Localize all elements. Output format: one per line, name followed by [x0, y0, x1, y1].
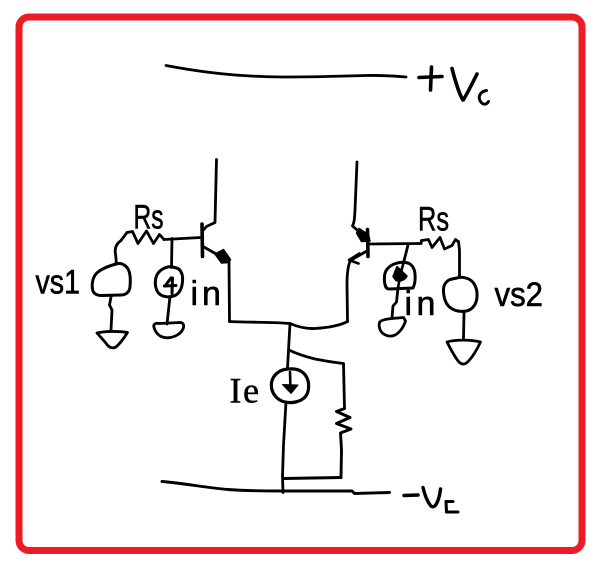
current source Ie circle: [271, 369, 308, 403]
resistor Rs (left): [121, 231, 164, 244]
wire -Ve bottom rail: [162, 482, 390, 494]
source vs2: [443, 277, 477, 311]
svg-text:Ie: Ie: [230, 371, 261, 411]
wire branch to resistor: [289, 350, 343, 364]
wire vs1 to ground: [110, 297, 113, 330]
arrow inside Ie: [289, 372, 292, 390]
resistor Rs (right): [421, 238, 458, 250]
svg-text:vs2: vs2: [495, 276, 544, 314]
wire right emitter down: [347, 262, 350, 322]
wire right collector: [353, 162, 365, 236]
arrow inside right in source: [398, 261, 404, 288]
arrow inside left in source: [165, 278, 171, 286]
svg-text:in: in: [191, 275, 225, 313]
node -Ve label (hand-drawn): [404, 488, 458, 513]
wire left collector: [203, 160, 217, 231]
node +Vc label (hand-drawn): [419, 67, 489, 104]
svg-text:Rs: Rs: [134, 199, 164, 237]
transistor Q2 collector arrow: [357, 229, 371, 242]
current source in (left) circle: [155, 267, 182, 297]
wire right base: [369, 242, 421, 245]
wire Rs left end down to vs1: [115, 241, 121, 265]
wire tail from bus down: [288, 324, 291, 369]
wire left base: [164, 238, 201, 240]
ground (left in): [154, 323, 184, 338]
wire left emitter down: [228, 262, 231, 322]
transistor Q2 base bar: [366, 230, 370, 257]
wire +Vc top rail: [166, 66, 406, 78]
transistor Q1 emitter: [203, 247, 218, 256]
wire emitter bus: [230, 322, 348, 329]
transistor Q2 emitter arrow: [349, 254, 360, 264]
transistor Q1 base bar: [200, 224, 204, 257]
resistor (bias): [337, 409, 352, 478]
source vs1: [92, 263, 130, 295]
svg-text:Rs: Rs: [418, 201, 449, 239]
svg-text:in: in: [405, 285, 440, 323]
wire vs2 to ground: [462, 313, 465, 339]
wire junction to in source (right): [404, 245, 408, 261]
wire right in source to ground: [392, 288, 398, 318]
wire bottom connector: [284, 478, 341, 479]
ground (vs2): [447, 340, 481, 364]
current source in (right) dome: [384, 262, 415, 289]
ground (vs1): [97, 331, 128, 347]
wire Rs right end down to vs2: [459, 242, 460, 278]
wire in source to ground (left): [167, 297, 170, 325]
ground (right in): [379, 318, 405, 337]
wire Ie to bottom rail: [283, 402, 287, 493]
svg-text:vs1: vs1: [36, 264, 81, 302]
wire junction to in source (left): [170, 239, 173, 268]
